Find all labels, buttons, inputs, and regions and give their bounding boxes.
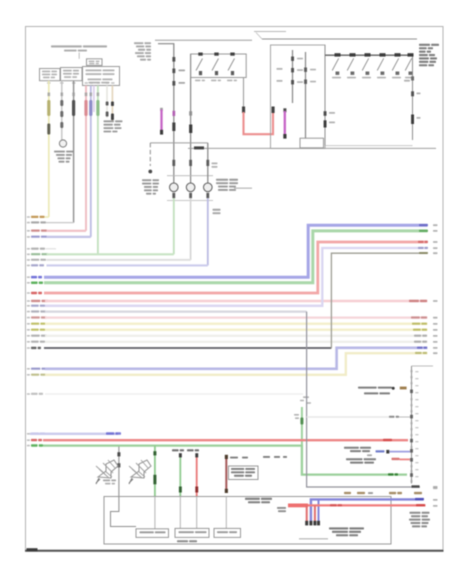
column I wire	[305, 52, 307, 138]
column J wire from bus	[207, 143, 209, 183]
wire RED tweeter	[196, 455, 198, 497]
internal wire drops	[154, 497, 156, 530]
green wire end label	[388, 473, 394, 475]
row GRN to bulbs	[31, 253, 40, 255]
wire GRN upper segment with splice	[301, 407, 303, 446]
page number label	[27, 548, 38, 551]
pins on box M2 left edge	[324, 111, 327, 116]
gray drop wire to amp	[118, 447, 120, 497]
long wire BLU with riser	[31, 276, 37, 279]
splice magenta on column D	[173, 111, 176, 116]
pin number texts	[415, 371, 418, 372]
navigation unit label	[245, 498, 260, 500]
pin marks below bulbs	[172, 193, 175, 198]
border frame	[26, 27, 444, 551]
row GRY to bulbs	[31, 259, 39, 261]
junction box M2 outline	[324, 45, 326, 146]
wire GRY vertical to ground line	[307, 312, 420, 487]
wire VIO lower with riser	[31, 368, 40, 370]
switches in box M1	[198, 53, 202, 56]
bulb housing rails	[167, 175, 213, 177]
wire stub mid right	[307, 416, 389, 418]
long wire GRN with riser	[31, 282, 38, 285]
red wire end label	[383, 439, 392, 441]
wire GRY below bulb 2	[190, 198, 192, 260]
bulb 3	[204, 183, 213, 192]
small box above connector C	[87, 59, 103, 66]
long wire PNK straight	[31, 316, 40, 318]
bottom tiny pin texts	[433, 487, 438, 489]
wire GRN tweeter	[179, 455, 181, 497]
note text block top right	[419, 44, 430, 46]
wire GRN from box C	[97, 86, 99, 255]
wire RED long bottom	[31, 439, 37, 441]
pins on box M2 right edge	[411, 76, 414, 80]
bulb label right	[216, 179, 228, 181]
label segment on bus	[194, 146, 204, 149]
bulb 1	[170, 183, 179, 192]
terminal row in box M2	[325, 54, 413, 56]
wire stub right of bulb label	[234, 187, 252, 189]
connector box C	[83, 67, 120, 86]
wire TAN stub	[111, 86, 113, 122]
wire RED U-shape	[244, 112, 274, 134]
wire GRN below bulb 1	[173, 198, 175, 254]
long wire VIO with riser	[31, 305, 39, 307]
connector box B	[61, 68, 83, 81]
bus wire horizontal	[188, 147, 436, 149]
blue stub wire	[344, 447, 359, 449]
wire MAG 2	[283, 108, 286, 112]
pin numbers under connector boxes	[47, 82, 51, 84]
long wire BLK with riser to right	[31, 347, 37, 349]
wire WHT faint row	[31, 393, 38, 395]
long wire YEL straight 2	[31, 329, 39, 331]
red pin drops	[306, 505, 308, 524]
power feed line A	[155, 39, 252, 41]
internal wire staircase	[111, 497, 137, 527]
row ORN label	[31, 216, 38, 218]
wire VIO stub from box C	[93, 86, 95, 113]
wire BLU below bulb 3	[207, 198, 209, 265]
wire BLK from box B	[73, 81, 75, 223]
long wire WHT straight 2	[31, 341, 39, 343]
column E wire	[190, 54, 192, 183]
note text block left-of-middle	[134, 42, 143, 44]
long wire WHT straight 1	[31, 335, 40, 337]
splice dark on column D	[172, 123, 175, 132]
title text line 1	[51, 45, 82, 47]
wire DRK RED antenna	[225, 457, 227, 493]
noise filter box	[229, 466, 259, 480]
pin marks above bulbs	[172, 160, 175, 166]
green branch wire	[154, 446, 156, 497]
power feed line B	[262, 38, 417, 40]
row BLU stub	[31, 236, 40, 238]
bulb 2	[186, 183, 195, 192]
wire WHT stub	[106, 86, 108, 119]
wire PNK from box C	[85, 86, 87, 231]
wire to ignition dropper	[150, 142, 208, 144]
right connector pin column	[411, 366, 413, 484]
red stub wire	[346, 458, 363, 460]
amp sub-box 2	[175, 528, 209, 537]
illumination LED symbol	[358, 387, 377, 389]
bulb label left	[142, 179, 151, 181]
wire BLU from box C	[90, 86, 92, 237]
row GRY stub	[31, 221, 39, 223]
long wire YEL straight 1	[31, 323, 39, 325]
label above tweeter wires	[172, 449, 179, 451]
destination label under WHT TAN wires	[104, 120, 114, 122]
row PNK stub	[31, 230, 40, 232]
connector box A	[40, 69, 61, 81]
ignition switch box	[271, 45, 326, 149]
bottom right text block	[410, 512, 421, 514]
splice mark on YEL wire	[47, 124, 50, 135]
wire GRY from box A	[61, 81, 63, 140]
wire BLU nav with pins	[311, 499, 424, 524]
row label only	[31, 248, 39, 250]
wire RED nav	[288, 504, 426, 506]
left edge pin tick marks	[27, 216, 30, 218]
wire stub gray bottom	[299, 538, 328, 540]
pin ticks	[411, 370, 413, 372]
long wire GRY row	[31, 310, 39, 312]
wire YEL lower with riser	[31, 374, 39, 376]
relay box M1	[191, 54, 247, 78]
long wire RED with riser	[31, 292, 37, 295]
long wire RED/BLK straight	[31, 300, 40, 302]
connector box on column I	[300, 138, 324, 148]
nav connector label text	[329, 527, 348, 529]
wire GRN bottom with drop	[31, 444, 38, 446]
splice marks on column E	[189, 111, 192, 115]
row BLU to bulbs	[31, 264, 38, 266]
jog line top	[254, 31, 286, 33]
column D wire with pins	[158, 44, 174, 183]
column H wire with pins	[292, 50, 294, 103]
labels above noise filter	[230, 457, 238, 459]
amp label below	[177, 540, 188, 542]
speaker symbol 1	[98, 460, 118, 478]
wire YEL from box A	[48, 81, 50, 217]
connector tags row	[344, 492, 351, 494]
component sensor left	[59, 140, 66, 147]
title text line 2	[64, 50, 77, 52]
splice symbol on ground wire	[303, 396, 309, 398]
pin tips	[305, 521, 308, 526]
wire drop to red U left	[243, 78, 245, 113]
wire MAG stub left	[160, 108, 163, 111]
speaker symbol 2	[131, 460, 151, 478]
wire BLU short with end label	[31, 433, 39, 435]
link line title to box	[78, 53, 80, 59]
bottom border heavy line	[25, 550, 444, 552]
amplifier box	[104, 497, 391, 545]
amp sub-box 1	[136, 529, 169, 538]
amp sub-box 3	[214, 528, 241, 537]
switches in box M2	[335, 53, 341, 56]
